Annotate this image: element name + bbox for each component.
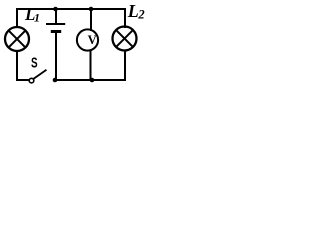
svg-text:S: S <box>31 56 38 72</box>
wire bottom middle <box>54 79 126 81</box>
wire right upper <box>124 8 126 28</box>
svg-text:1: 1 <box>34 11 40 25</box>
svg-text:2: 2 <box>137 8 144 22</box>
node battery-top <box>53 7 58 12</box>
wire left upper <box>16 8 18 28</box>
lamp L2 <box>113 27 137 51</box>
wire bottom left <box>16 79 30 81</box>
node voltmeter-top <box>89 7 94 12</box>
voltmeter V <box>77 29 98 50</box>
wire right lower <box>124 50 126 81</box>
wire battery lower stub <box>55 32 57 81</box>
svg-text:L: L <box>127 1 139 21</box>
lamp L1 <box>5 27 29 51</box>
node voltmeter-bottom <box>90 78 95 83</box>
switch S contact <box>29 78 34 83</box>
wire battery upper stub <box>55 9 57 24</box>
svg-text:V: V <box>88 33 97 47</box>
wire left lower <box>16 50 18 81</box>
wire top <box>16 8 126 10</box>
switch S lever <box>33 70 46 79</box>
wire voltmeter upper stub <box>90 9 92 31</box>
node battery-bottom <box>53 78 58 83</box>
battery plate long <box>46 23 65 25</box>
battery plate short <box>51 30 61 33</box>
wire voltmeter lower stub <box>90 50 92 81</box>
